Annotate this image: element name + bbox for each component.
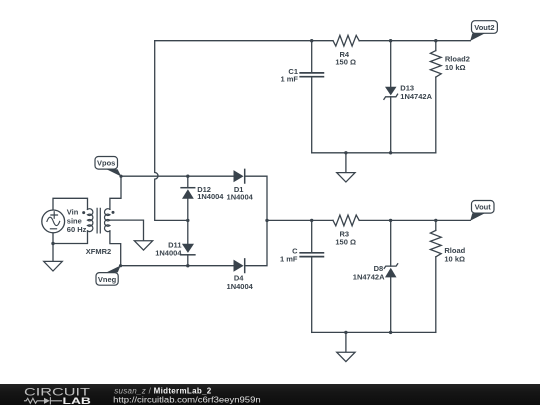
resistor R4 150 ohm [333, 35, 359, 46]
wire: lower circuit rail (right of R3) [359, 219, 470, 221]
wire: top circuit ground rail [312, 152, 436, 154]
transformer primary phasing dot [82, 211, 85, 214]
svg-text:1N4742A: 1N4742A [400, 92, 432, 101]
transformer XFMR2 primary winding [88, 209, 93, 232]
svg-text:1N4004: 1N4004 [155, 249, 182, 258]
junction: bridge output node [265, 219, 268, 222]
label Rload2 10 kohm [445, 55, 470, 72]
wire: Vneg rail to bridge [121, 265, 234, 267]
ground (top circuit) [337, 153, 355, 182]
footer logo CIRCUIT [24, 386, 90, 398]
junction: Rload top [434, 219, 437, 222]
wire: source top lead to transformer primary top [53, 198, 88, 210]
diode D12 1N4004 [181, 176, 195, 244]
svg-text:150 Ω: 150 Ω [335, 237, 356, 246]
capacitor C1 1 mF [300, 41, 323, 153]
svg-text:10 kΩ: 10 kΩ [444, 255, 465, 264]
net flag Vpos [95, 157, 121, 177]
svg-text:XFMR2: XFMR2 [86, 247, 111, 256]
svg-text:1 mF: 1 mF [280, 254, 298, 263]
wire: secondary top lead up to Vpos node [110, 176, 121, 209]
ground (lower circuit) [337, 332, 355, 361]
svg-text:1 mF: 1 mF [280, 75, 298, 84]
resistor Rload2 10 kohm [430, 41, 441, 153]
label R3 150 ohm [335, 230, 356, 247]
junction: D8 bottom [389, 331, 392, 334]
label C 1 mF [280, 246, 298, 263]
label Rload 10 kohm [444, 246, 465, 263]
capacitor C 1 mF [300, 220, 323, 332]
label D8 1N4742A [353, 264, 385, 282]
junction: Rload2 top [434, 39, 437, 42]
ground (center tap) [134, 241, 152, 250]
label C1 1 mF [280, 67, 298, 84]
junction: D8 top [389, 219, 392, 222]
wire: bridge output column [245, 176, 267, 266]
junction: Vpos flag tip [119, 175, 122, 178]
wire: bridge output to lower circuit (left of R3) [267, 219, 333, 221]
junction: D12 cathode on Vpos rail [186, 175, 189, 178]
footer credit line [114, 386, 212, 395]
net flag Vout2 [470, 21, 497, 41]
junction: D13 bottom [389, 151, 392, 154]
label Vin sine 60 Hz [67, 208, 87, 235]
label D1 [227, 185, 254, 202]
svg-text:150 Ω: 150 Ω [335, 58, 356, 67]
diode D11 1N4004 [181, 244, 195, 266]
wire: left vertical riser with hop over Vpos rail [155, 41, 188, 221]
junction: D13 top [389, 39, 392, 42]
svg-text:LAB: LAB [63, 396, 92, 405]
junction: D12 anode / riser node [186, 219, 189, 222]
svg-text:10 kΩ: 10 kΩ [445, 63, 466, 72]
footer logo LAB [63, 396, 92, 405]
label D13 1N4742A [400, 84, 432, 101]
diode D4 1N4004 [234, 259, 245, 273]
wire: secondary center tap [110, 220, 144, 241]
svg-text:Vin: Vin [67, 208, 79, 217]
label R4 150 ohm [335, 50, 356, 67]
svg-text:Vout2: Vout2 [474, 23, 494, 32]
transformer secondary phasing dot [112, 211, 115, 214]
svg-text:D8: D8 [374, 264, 384, 273]
label D12 [197, 185, 224, 201]
wire: top circuit rail (right of R4) [359, 40, 470, 42]
footer url line [113, 396, 261, 405]
svg-text:Vneg: Vneg [98, 275, 117, 284]
svg-text:http://circuitlab.com/c6rf3eey: http://circuitlab.com/c6rf3eeyn959n [113, 396, 261, 405]
wire: secondary bottom lead down to Vneg node [110, 231, 121, 266]
junction: source bottom node [51, 242, 54, 245]
diode D1 1N4004 [234, 169, 245, 183]
resistor R3 150 ohm [333, 215, 359, 226]
svg-text:Vpos: Vpos [97, 159, 115, 168]
junction: C top [310, 219, 313, 222]
ground (below source) [44, 244, 63, 272]
svg-text:1N4742A: 1N4742A [353, 273, 385, 282]
wire: source bottom lead to transformer primary bottom [53, 231, 88, 244]
junction: top ground stem [344, 151, 347, 154]
voltage source V1 (Vin sine 60 Hz) [42, 210, 65, 233]
wire: lower circuit ground rail [312, 331, 436, 333]
label XFMR2 [86, 247, 111, 256]
junction: C1 top [310, 39, 313, 42]
footer bar [0, 384, 540, 405]
junction: lower ground stem [344, 331, 347, 334]
transformer XFMR2 core [97, 208, 100, 233]
footer logo schematic squiggle [25, 398, 62, 404]
junction: Vneg flag tip [119, 264, 122, 267]
transformer XFMR2 secondary winding [105, 209, 110, 232]
label D11 [155, 240, 182, 257]
resistor Rload 10 kohm [430, 220, 441, 332]
net flag Vneg [96, 266, 121, 286]
svg-text:Vout: Vout [475, 203, 492, 212]
svg-text:1N4004: 1N4004 [227, 193, 254, 202]
junction: D11 cathode on Vneg rail [186, 264, 189, 267]
zener diode D8 1N4742A [384, 220, 398, 332]
wire: top circuit rail (left of R4) [155, 40, 333, 42]
svg-text:susan_z / MidtermLab_2: susan_z / MidtermLab_2 [114, 386, 212, 395]
wire: Vpos rail to bridge [121, 175, 234, 177]
svg-text:60 Hz: 60 Hz [67, 225, 87, 234]
svg-text:1N4004: 1N4004 [197, 192, 224, 201]
net flag Vout [470, 201, 494, 221]
zener diode D13 1N4742A [384, 41, 398, 153]
svg-text:1N4004: 1N4004 [227, 282, 254, 291]
label D4 [227, 273, 254, 290]
